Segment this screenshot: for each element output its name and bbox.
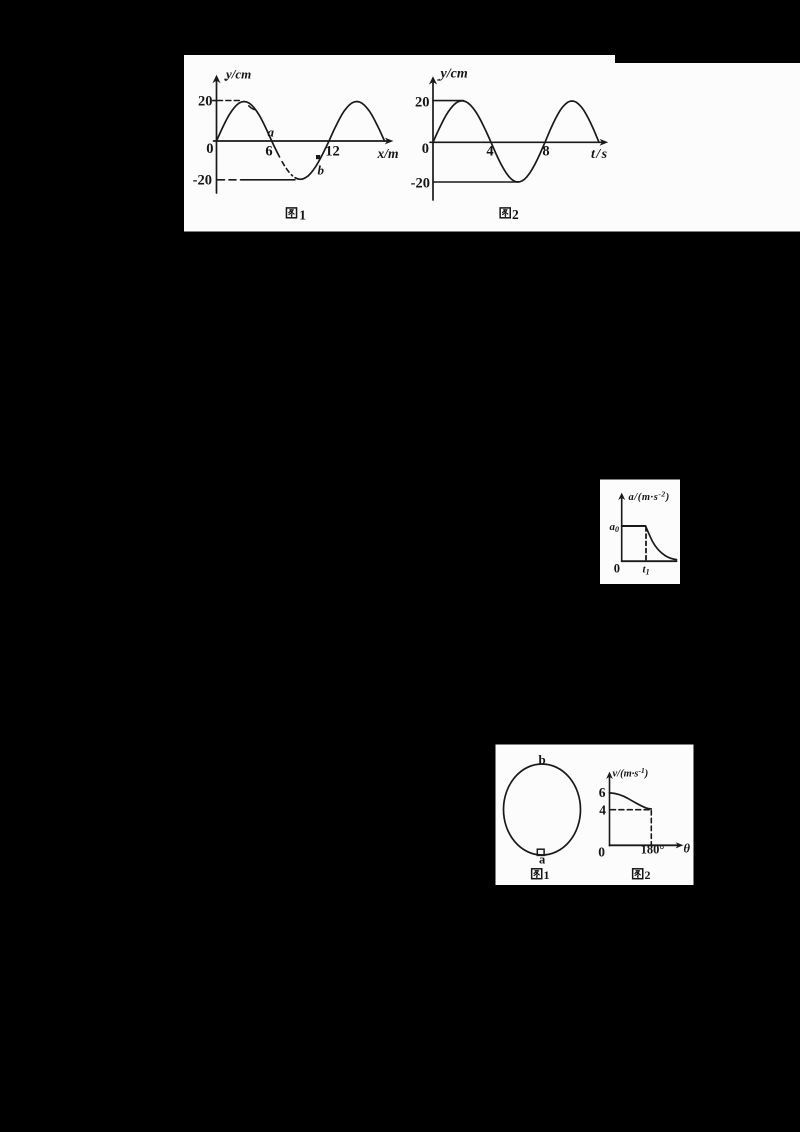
svg-text:-20: -20: [193, 173, 212, 189]
y-axis arrowhead fig1: [212, 75, 220, 83]
svg-text:0: 0: [422, 141, 429, 157]
svg-text:-20: -20: [411, 176, 430, 192]
caption TU1 fig1: [286, 208, 296, 218]
svg-text:4: 4: [599, 803, 606, 818]
svg-text:b: b: [318, 162, 325, 177]
svg-text:b: b: [539, 752, 546, 767]
svg-text:0: 0: [598, 845, 605, 860]
solid part of -20 level fig1: [242, 179, 295, 181]
v-theta graph: [606, 772, 683, 849]
-20 level line fig2: [433, 181, 518, 183]
wave curve fig2: [433, 101, 599, 182]
tick dash before y/cm fig1: [224, 78, 227, 80]
dashed level 4 v-theta: [611, 809, 651, 811]
point b marker fig1: [316, 155, 320, 159]
panel: acceleration-time graph: [600, 480, 680, 585]
decay curve a-t graph: [646, 526, 677, 560]
svg-text:1: 1: [544, 868, 550, 882]
wave solid segment 2 fig1: [295, 102, 384, 180]
svg-text:0: 0: [614, 562, 620, 576]
svg-text:20: 20: [198, 94, 213, 110]
panel: top waveform figure: [184, 55, 800, 232]
svg-text:180°: 180°: [641, 843, 665, 857]
x-axis a-t graph: [622, 560, 677, 562]
svg-text:8: 8: [542, 143, 549, 159]
caption TU1 circle: [532, 869, 542, 879]
svg-text:θ: θ: [684, 842, 691, 856]
dashed part of -20 level fig1: [218, 179, 243, 181]
dashed level +20 fig1: [218, 100, 242, 102]
x-axis arrowhead fig1: [385, 138, 394, 145]
block square on track: [537, 849, 544, 855]
y-axis arrowhead fig2: [429, 76, 437, 84]
y-axis a-t graph: [621, 497, 623, 561]
x-axis fig2: [430, 141, 603, 143]
panel: circle and v-theta figure: [496, 745, 694, 886]
svg-text:12: 12: [325, 143, 340, 159]
x-axis v-theta: [610, 844, 679, 846]
dashed vertical 180 v-theta: [650, 811, 652, 845]
svg-text:2: 2: [645, 868, 651, 882]
svg-text:4: 4: [486, 143, 493, 159]
svg-text:a: a: [539, 853, 546, 867]
v curve v-theta: [610, 793, 652, 809]
svg-text:6: 6: [265, 143, 272, 159]
y-axis arrowhead v-theta: [606, 772, 613, 779]
wave solid segment 1 fig1: [217, 102, 280, 157]
stray double-stroke arc near first peak fig1: [249, 106, 254, 110]
svg-text:0: 0: [206, 141, 213, 157]
wave dashed segment fig1: [282, 162, 292, 176]
svg-text:x/m: x/m: [377, 146, 399, 161]
y-axis arrowhead a-t graph: [618, 493, 625, 500]
svg-text:a: a: [268, 125, 275, 140]
dashed vertical at t1 a-t graph: [645, 527, 647, 561]
ellipse track: [504, 764, 581, 855]
caption TU2 v-theta: [633, 869, 643, 879]
a0 level line a-t graph: [622, 525, 646, 527]
svg-text:6: 6: [599, 785, 606, 800]
svg-text:1: 1: [299, 207, 306, 222]
x-axis arrowhead fig2: [600, 139, 609, 146]
tick at +20 level fig1: [213, 100, 217, 102]
y-axis v-theta: [609, 776, 611, 846]
x-axis fig1: [214, 140, 389, 142]
+20 level line fig2: [433, 100, 464, 102]
y-axis fig2: [432, 81, 434, 200]
x-axis arrowhead v-theta: [676, 842, 684, 848]
svg-text:20: 20: [415, 95, 430, 111]
caption TU2 fig2: [500, 208, 510, 218]
svg-text:y/cm: y/cm: [439, 67, 468, 82]
y-axis fig1: [216, 80, 218, 193]
tick dash before y/cm fig2: [437, 79, 440, 81]
svg-text:2: 2: [512, 207, 519, 222]
svg-text:t/s: t/s: [591, 147, 608, 162]
svg-text:y/cm: y/cm: [224, 67, 251, 82]
